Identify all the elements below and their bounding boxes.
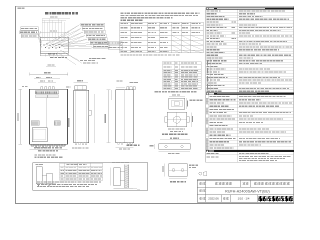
svg-text:1/10 · 1/4: 1/10 · 1/4 (238, 197, 250, 201)
svg-text:RUFH-A2400SAW-VT(BU): RUFH-A2400SAW-VT(BU) (225, 189, 270, 193)
svg-text:2022.06: 2022.06 (208, 197, 219, 201)
